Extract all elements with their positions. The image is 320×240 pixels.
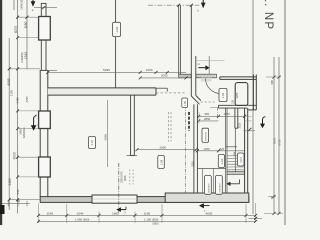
dim right vline x274 [273, 57, 275, 214]
dim line left col x27 [26, 0, 28, 69]
dim line 950 1370 [197, 112, 251, 121]
svg-text:2185: 2185 [8, 178, 12, 185]
stair treads [227, 156, 245, 170]
beam dashed bar [188, 112, 190, 131]
window W2 in left wall [39, 111, 51, 129]
svg-text:700/1970: 700/1970 [219, 183, 221, 193]
wall interior vertical x131 [127, 95, 138, 155]
room label 1.01 [219, 88, 227, 101]
svg-text:3110: 3110 [190, 161, 194, 167]
svg-text:1.100 (950): 1.100 (950) [144, 218, 158, 222]
small dim bottom-left [2, 199, 30, 206]
dim stub top-left x14 [13, 0, 15, 10]
dim ticks left [8, 16, 29, 202]
svg-text:4005: 4005 [206, 212, 213, 216]
svg-text:900/2020: 900/2020 [206, 131, 208, 141]
svg-text:1515: 1515 [24, 52, 28, 59]
wall right lower [245, 108, 248, 193]
svg-text:984: 984 [233, 151, 237, 156]
svg-text:1540: 1540 [77, 212, 84, 216]
dim right rotated texts [270, 80, 282, 199]
svg-text:985: 985 [270, 80, 274, 85]
room label 1.08 [158, 156, 165, 169]
dim vline 6060 [104, 100, 108, 167]
axis dash-dot porch [118, 163, 120, 213]
section arrow a top-left [31, 0, 36, 12]
svg-text:(900): (900) [124, 175, 127, 181]
dim right ticks [273, 76, 281, 216]
sheet inner frame line [252, 0, 254, 214]
window W1 in left wall [39, 17, 51, 41]
svg-text:(950): (950) [153, 221, 159, 225]
door hinge extension line [208, 56, 210, 74]
stair direction arrow [226, 180, 239, 187]
wall right upper outer [248, 75, 257, 110]
svg-text:1.06: 1.06 [115, 26, 119, 32]
dim line 5290 [46, 68, 186, 74]
tick at window stub [248, 128, 251, 131]
svg-text:1250: 1250 [204, 147, 210, 151]
svg-text:5290: 5290 [103, 68, 110, 72]
dim right ext lines [264, 77, 283, 214]
svg-text:2000/1970: 2000/1970 [121, 171, 124, 183]
wall hatched threshold [196, 74, 216, 78]
svg-text:1.03: 1.03 [239, 157, 243, 163]
svg-text:6860: 6860 [18, 128, 22, 135]
wall top edge extension [40, 70, 57, 72]
partition WC x202 [201, 169, 203, 194]
wall inner x236 lower [235, 108, 238, 128]
dim right vline x279 [278, 57, 280, 214]
svg-text:1860: 1860 [112, 212, 119, 216]
section arrow m center [198, 62, 210, 70]
svg-text:6060: 6060 [104, 134, 108, 141]
dashed jambs bottom-left opening [130, 170, 133, 185]
arrow left wall mid [31, 115, 39, 131]
wall bottom step thicker right part [165, 193, 249, 202]
wall left thick [40, 70, 48, 197]
partition upper wing [115, 0, 117, 88]
partition bath y147 [226, 146, 237, 148]
svg-text:6075: 6075 [14, 26, 18, 33]
entrance arrow porch [116, 207, 126, 212]
partition WC row y168.5 [197, 168, 225, 170]
dim line top-center dashed [148, 4, 199, 7]
wall stub extension left of band [210, 107, 218, 109]
svg-text:1. NP: 1. NP [262, 0, 274, 30]
scan left edge strip [0, 0, 2, 225]
ext line x199 [198, 112, 200, 124]
bottom extension lines [39, 204, 247, 223]
svg-text:950: 950 [205, 112, 210, 116]
svg-text:940: 940 [16, 189, 20, 194]
sheet frame right line [284, 0, 286, 225]
svg-text:1.990 (950): 1.990 (950) [75, 218, 89, 222]
svg-text:1295: 1295 [235, 92, 239, 98]
window W3 in left wall [39, 157, 51, 177]
svg-text:1140: 1140 [47, 212, 54, 216]
svg-text:6290(361): 6290(361) [23, 127, 26, 138]
dim line 2000 [136, 146, 198, 152]
wall bottom band [40, 197, 249, 203]
svg-text:1060: 1060 [146, 68, 153, 72]
wall mid horizontal band [48, 88, 156, 95]
hook arrow right side [260, 117, 266, 128]
room fixture rounded outline [235, 83, 248, 106]
dim line 2050 [139, 74, 188, 80]
partition x235.3 lower [234, 128, 236, 172]
svg-text:1180: 1180 [24, 21, 28, 28]
svg-text:800/1970: 800/1970 [208, 183, 210, 193]
axis dash-dot x217 [216, 107, 218, 116]
porch vestibule opening [92, 195, 137, 203]
arrow bottom-center [199, 203, 210, 212]
wall left upper thin [41, 3, 46, 71]
partition WC x213.5 [213, 169, 215, 194]
svg-text:2050: 2050 [161, 74, 168, 78]
svg-text:1150: 1150 [9, 90, 13, 96]
svg-text:1.08: 1.08 [160, 159, 164, 165]
svg-text:2850: 2850 [204, 117, 211, 121]
dim line 2850 [197, 117, 218, 123]
door label 900/2020 [202, 128, 209, 142]
extension lines left [9, 17, 40, 200]
stair landing wall [227, 172, 245, 174]
door opening dashes mid [156, 92, 185, 94]
dashed axis pair x169 [169, 112, 172, 142]
wall band right rooms y106 [218, 105, 256, 108]
thin line above arrow m [195, 60, 225, 62]
svg-text:1040(1500): 1040(1500) [21, 0, 24, 10]
svg-text:1190(950): 1190(950) [21, 52, 24, 63]
door label 800/1970 [204, 175, 211, 194]
door arc top-right [206, 78, 222, 94]
dim line top-left [34, 6, 57, 9]
scan blob bottom-left [0, 205, 5, 214]
dim bottom row1 [37, 212, 257, 217]
room label 1.07 [89, 136, 96, 148]
svg-text:150: 150 [232, 99, 235, 104]
room label 1.06 [113, 22, 121, 36]
svg-text:2000: 2000 [160, 146, 167, 150]
room label 1.05 small [182, 98, 188, 108]
dim texts left rotated [7, 0, 29, 195]
svg-text:1.04: 1.04 [220, 158, 224, 164]
dim bottom row2 [37, 218, 257, 226]
svg-text:1370: 1370 [224, 112, 231, 116]
room label 1.03 [237, 153, 244, 166]
svg-text:6985: 6985 [7, 78, 11, 85]
svg-text:1.07: 1.07 [90, 139, 94, 145]
wall left of stair block [226, 108, 227, 193]
wall lintel over corridor [179, 74, 192, 78]
svg-text:1.05: 1.05 [184, 101, 187, 106]
svg-text:2795: 2795 [25, 96, 29, 103]
svg-text:1195: 1195 [144, 212, 151, 216]
dim line left col x17.6 [17, 0, 19, 214]
door opening dashes right corridor [201, 101, 217, 103]
axis dash-dot x185.5 [185, 105, 187, 193]
svg-text:5665: 5665 [273, 137, 277, 144]
dim line 1250 [196, 147, 245, 153]
wall corridor right / center spine [191, 5, 201, 193]
window stub in right wall [243, 130, 255, 132]
svg-text:6730: 6730 [278, 139, 282, 146]
wall lower face right of door [201, 78, 212, 82]
dim line left col x9 [8, 38, 10, 210]
svg-text:2115: 2115 [238, 122, 242, 128]
svg-text:325: 325 [220, 147, 225, 151]
wall jamb extension [156, 88, 167, 91]
svg-text:4990: 4990 [13, 152, 17, 159]
svg-text:1.01: 1.01 [221, 92, 225, 98]
room label 1.04 [218, 155, 224, 168]
section arrow top-center [198, 0, 206, 13]
svg-text:1485: 1485 [15, 97, 19, 104]
wall top-right band [220, 77, 256, 80]
dim bottom-right short [249, 203, 263, 222]
door label 700/1970 [215, 175, 222, 194]
wall corridor left (upper) [179, 5, 181, 74]
